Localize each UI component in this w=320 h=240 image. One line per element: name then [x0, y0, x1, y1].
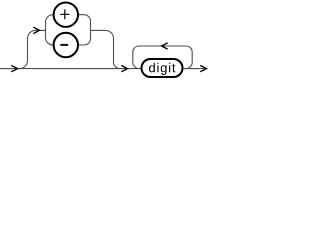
- arrow on loop rail pointing left: [162, 43, 168, 49]
- arrow start of baseline: [11, 65, 17, 71]
- wire branch up to sign choice (left): [20, 30, 46, 68]
- terminal oval digit: [142, 59, 183, 77]
- arrow on sign entry rail: [33, 27, 39, 33]
- wire digit repeat loop: [133, 46, 192, 69]
- label digit: [149, 63, 175, 75]
- terminal circle minus: [54, 33, 78, 57]
- plus glyph: [60, 9, 69, 19]
- wire minus row exit (right): [79, 30, 91, 45]
- wire sign merge rail back down to baseline: [91, 30, 121, 68]
- wire plus row exit (right): [79, 15, 91, 31]
- wire split to plus row (left): [46, 15, 54, 31]
- railroad diagram: optional (+|-) sign then digit loop: [0, 0, 208, 79]
- arrow end of baseline: [200, 65, 206, 71]
- arrow before digit loop: [121, 65, 127, 71]
- terminal circle plus: [54, 3, 78, 27]
- minus glyph: [60, 44, 68, 46]
- wire split to minus row (left): [46, 30, 54, 45]
- wire main baseline: [0, 68, 207, 70]
